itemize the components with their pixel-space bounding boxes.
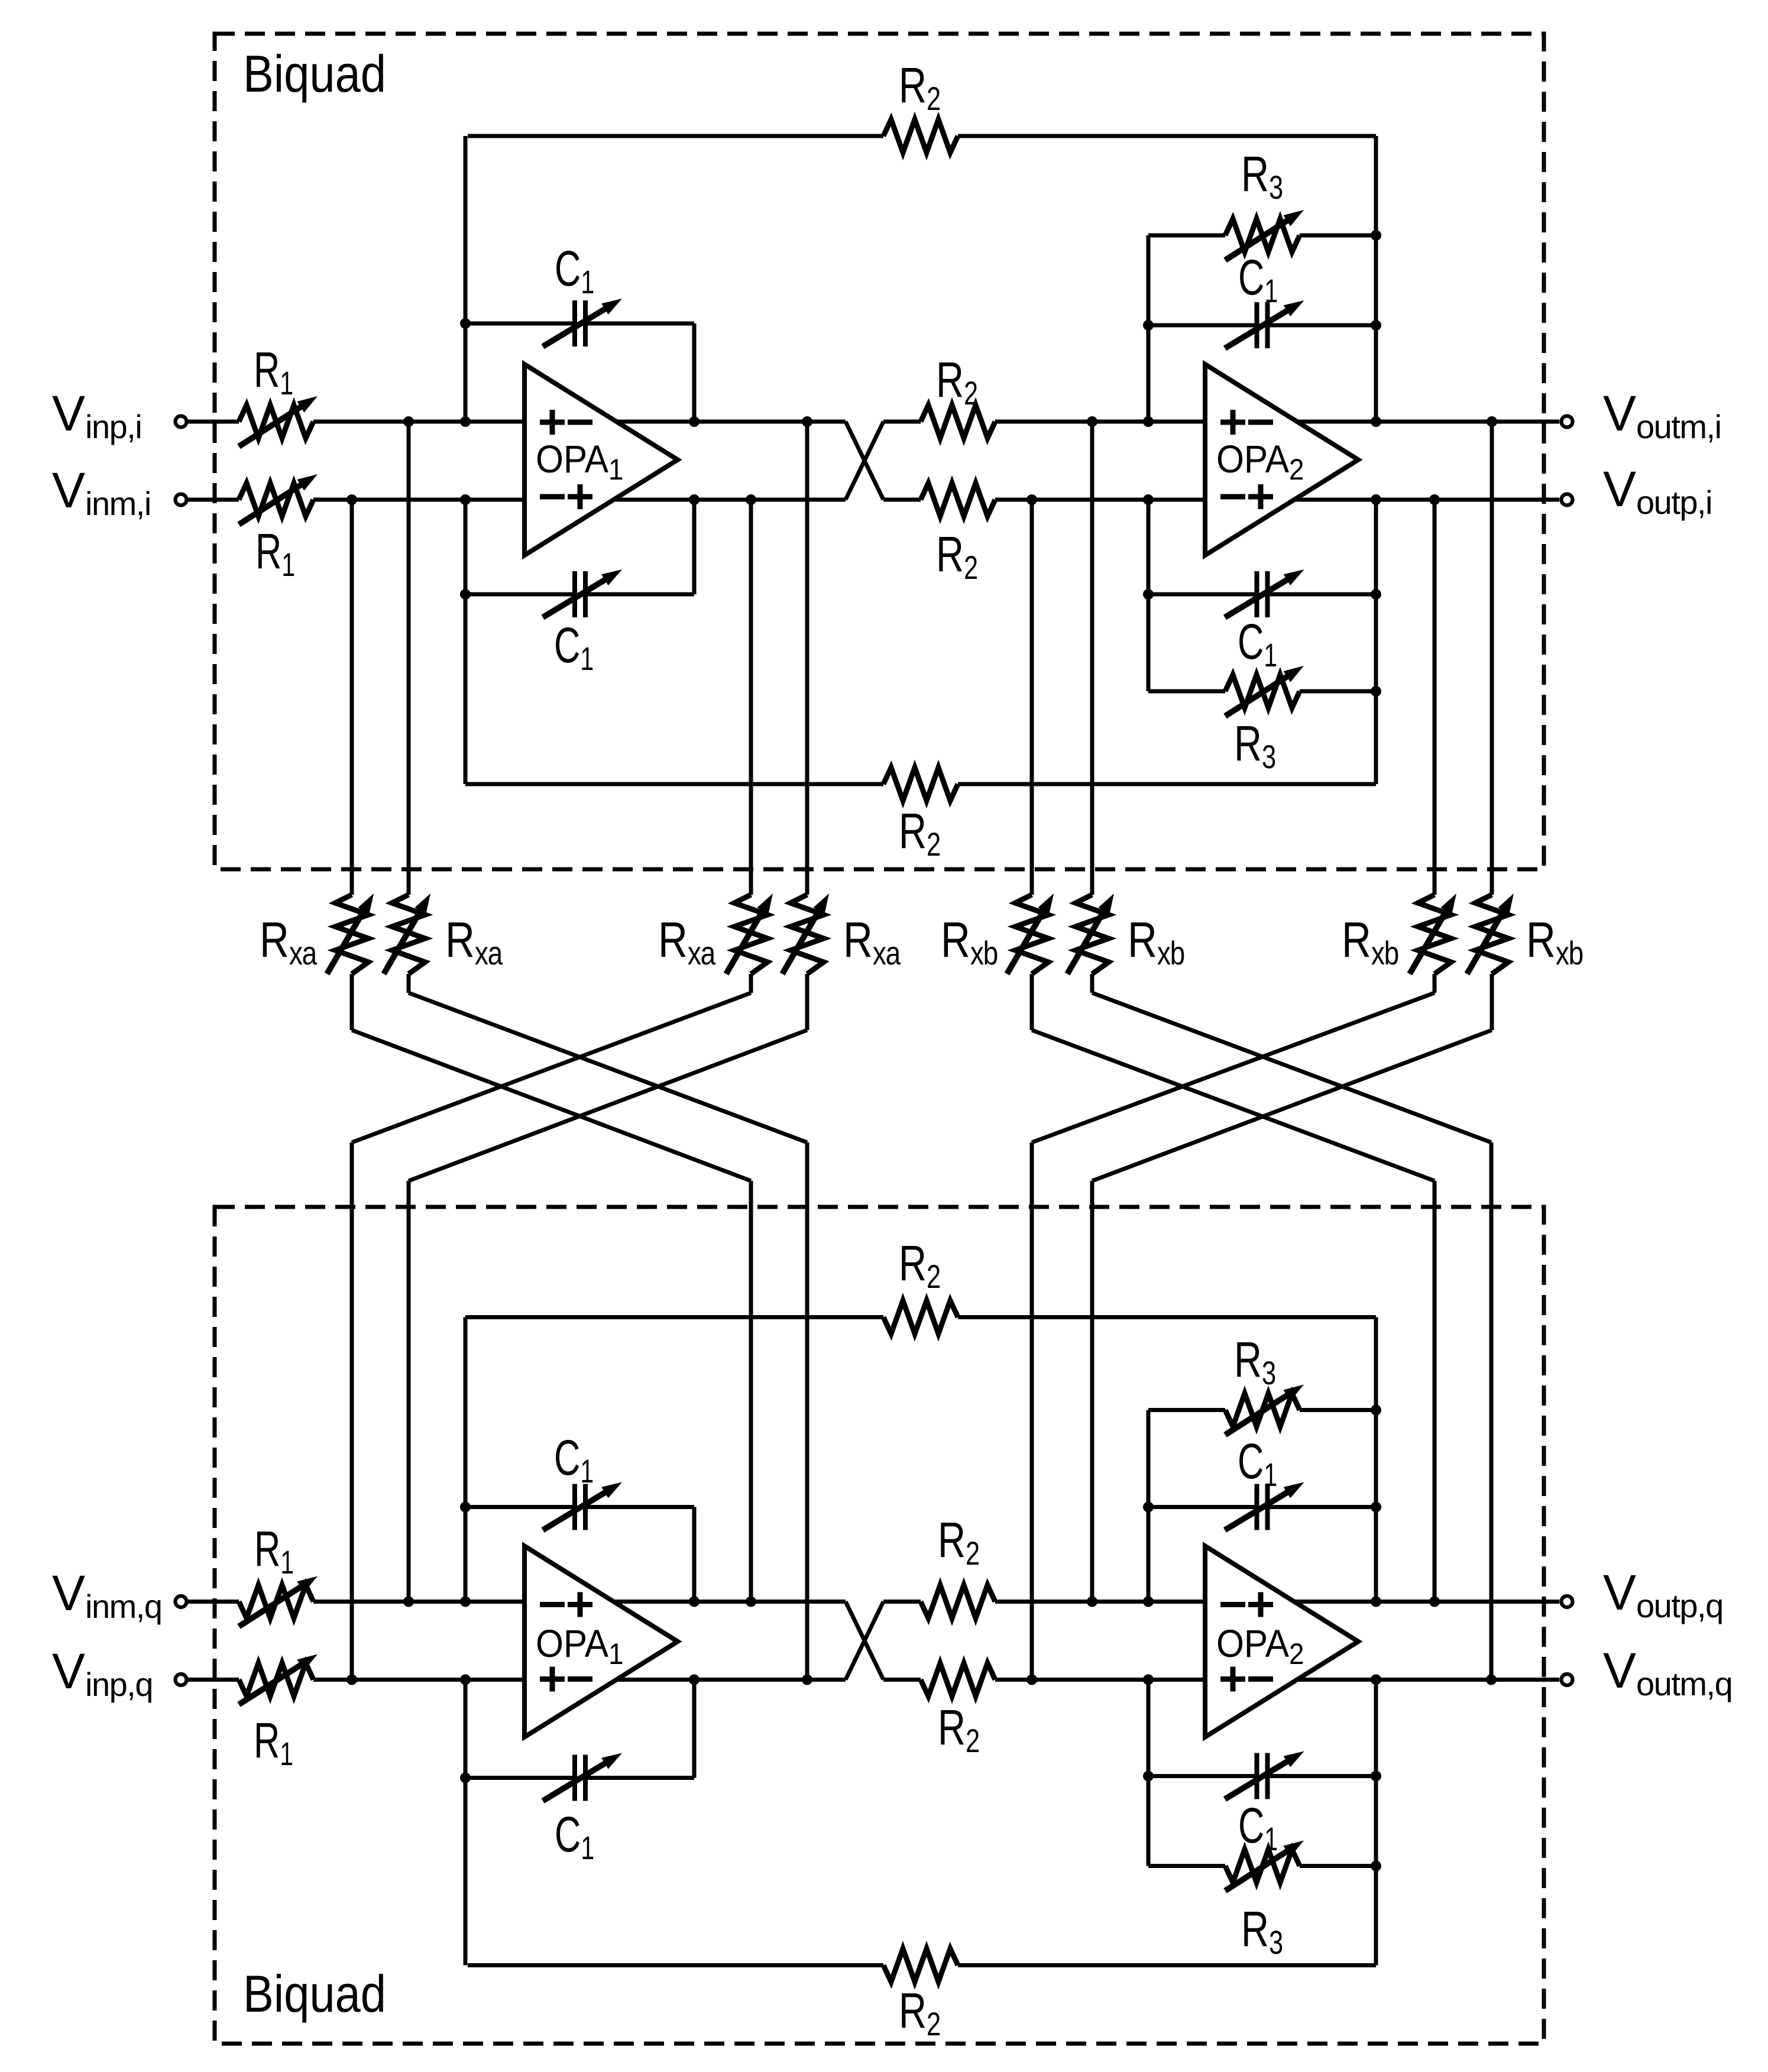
- junction Rxa #1 top rail: [347, 494, 357, 505]
- resistor Rxb #2 (variable): [1076, 895, 1109, 974]
- wire Rxb #1 crossing diagonal: [1032, 1030, 1435, 1181]
- wire R3/C1 right vertical (lower) (Q biquad, mirrored): [1374, 1317, 1378, 1602]
- OPA1 - sign bottom: [540, 494, 565, 500]
- wire R1 to OPA1 (node B): [313, 498, 524, 502]
- wire Rxa #2 column from top biquad: [407, 422, 411, 895]
- junction Rxa #4 top rail: [802, 416, 812, 427]
- output terminal Voutp,i (Q biquad, mirrored): [1562, 1596, 1573, 1607]
- junction Rxa #4 bottom rail: [403, 1597, 414, 1607]
- resistor R3 (upper): [1148, 234, 1225, 238]
- svg-text:Biquad: Biquad: [243, 44, 386, 103]
- arrow of R3 (upper): [1225, 216, 1294, 260]
- svg-text:Biquad: Biquad: [243, 1964, 386, 2023]
- resistor R2 (top feedback): [468, 134, 883, 138]
- junction right vertical / rail upper: [1371, 416, 1381, 427]
- wire Rxa #2 to corner: [407, 974, 411, 993]
- wire OPA1 bottom output: [614, 498, 846, 502]
- junction Rxb #4 bottom rail: [1087, 1597, 1097, 1607]
- arrow of Rxa #2: [384, 903, 425, 974]
- Q OPA1 - sign top: [540, 1602, 565, 1607]
- junction Rxb #1 bottom rail: [1429, 1597, 1440, 1607]
- junction left vertical / C1 lower: [1143, 589, 1154, 600]
- op-amp OPA1 (Q biquad, mirrored): [524, 1546, 678, 1737]
- junction right vertical / rail lower: [1371, 494, 1381, 505]
- resistor R2 (to OPA2 top): [883, 420, 921, 424]
- wire Vinm,i to R1: [187, 498, 239, 502]
- junction Rxb #3 top rail: [1429, 494, 1440, 505]
- junction left vertical / rail upper: [1143, 416, 1154, 427]
- OPA2 + sign bottom: [1248, 494, 1273, 500]
- junction C1 right lower: [1371, 589, 1381, 600]
- junction C1 / bottom output rail (Q biquad, mirrored): [689, 1597, 700, 1607]
- wire Rxa #1 crossing diagonal: [352, 1030, 751, 1181]
- resistor R1 (Vinp,i): [239, 405, 313, 438]
- wire R1 to OPA1 (node B) (Q biquad, mirrored): [313, 1600, 524, 1604]
- wire R3/C1 left vertical (upper): [1147, 235, 1151, 422]
- junction left vertical / rail lower: [1143, 494, 1154, 505]
- junction right vertical / rail upper (Q biquad, mirrored): [1371, 1675, 1381, 1685]
- arrow of Rxb #4: [1467, 903, 1508, 974]
- junction left vertical / rail upper (Q biquad, mirrored): [1143, 1675, 1154, 1685]
- wire Rxb #4 crossing diagonal: [1092, 1030, 1492, 1181]
- crossover wire (bottom to top): [846, 422, 883, 500]
- arrow of C1 (Q OPA1 upper): [543, 1488, 613, 1530]
- junction right vertical / rail lower (Q biquad, mirrored): [1371, 1597, 1381, 1607]
- op-amp OPA2 (Q biquad, mirrored): [1205, 1546, 1358, 1737]
- capacitor C1 (OPA2 upper): [1148, 323, 1257, 328]
- wire node A vertical to R2 feedback (Q biquad, mirrored): [464, 1680, 468, 1966]
- OPA2 + sign top: [1220, 420, 1245, 425]
- junction C1 / top output rail (Q biquad, mirrored): [689, 1675, 700, 1685]
- arrow of R1 (Q lower): [239, 1660, 308, 1705]
- resistor R2 (to OPA2 top) (Q biquad, mirrored): [883, 1678, 921, 1682]
- resistor R3 (upper) (Q biquad, mirrored): [1148, 1864, 1225, 1868]
- OPA1 + sign top: [540, 420, 565, 425]
- wire R3/C1 right vertical (upper) (Q biquad, mirrored): [1374, 1680, 1378, 1966]
- junction R3 right upper: [1371, 230, 1381, 241]
- resistor Rxa #4 (variable): [791, 895, 824, 974]
- capacitor C1 (OPA2 lower) (Q biquad, mirrored): [1148, 1505, 1257, 1509]
- junction left vertical / rail lower (Q biquad, mirrored): [1143, 1597, 1154, 1607]
- resistor Rxb #1 (variable): [1015, 895, 1048, 974]
- resistor R1 (Vinm,i) (Q biquad, mirrored): [239, 1585, 313, 1618]
- wire Rxa #4 column into bottom biquad: [407, 1181, 411, 1602]
- arrow of R3 (Q upper): [1225, 1391, 1294, 1435]
- arrow of R3 (Q lower): [1225, 1847, 1294, 1891]
- wire R3/C1 left vertical (lower) (Q biquad, mirrored): [1147, 1410, 1151, 1602]
- junction node B / C1 lower (Q biquad, mirrored): [460, 1502, 471, 1513]
- wire Rxa #3 crossing diagonal: [352, 993, 751, 1142]
- junction Rxb #1 top rail: [1027, 494, 1037, 505]
- junction node A / rail: [460, 416, 471, 427]
- wire R1 to OPA1 (node A) (Q biquad, mirrored): [313, 1678, 524, 1682]
- resistor R2 (top feedback) (Q biquad, mirrored): [468, 1963, 883, 1967]
- crossover wire (bottom to top) (Q biquad, mirrored): [846, 1602, 883, 1680]
- wire Rxa #3 column from top biquad: [749, 500, 753, 895]
- capacitor C1 (OPA2 lower): [1148, 593, 1257, 597]
- arrow of C1 (OPA1 lower): [543, 575, 613, 617]
- resistor Rxa #1 (variable): [335, 895, 368, 974]
- arrow of C1 (OPA2 upper): [1225, 306, 1295, 348]
- wire Rxb #3 column into bottom biquad: [1030, 1142, 1034, 1680]
- wire R3/C1 left vertical (upper) (Q biquad, mirrored): [1147, 1680, 1151, 1866]
- wire R3/C1 right vertical (upper): [1374, 136, 1378, 422]
- wire Rxa #4 column from top biquad: [805, 422, 809, 895]
- junction Rxb #2 bottom rail: [1486, 1675, 1497, 1685]
- arrow of Rxa #4: [782, 903, 824, 974]
- arrow of R1 (Vinp,i): [239, 402, 308, 446]
- wire Rxb #4 column into bottom biquad: [1090, 1181, 1095, 1602]
- arrow of R3 (lower): [1225, 672, 1294, 716]
- crossover wire (top to bottom): [846, 422, 883, 500]
- Q OPA2 - sign top: [1220, 1602, 1245, 1607]
- dashed box bottom Biquad: [215, 1207, 1544, 2044]
- output terminal Voutp,i: [1562, 494, 1573, 506]
- arrow of Rxb #2: [1067, 903, 1109, 974]
- wire Rxb #2 column into bottom biquad: [1489, 1142, 1494, 1680]
- Q OPA2 + sign bottom: [1220, 1676, 1245, 1682]
- wire node B vertical to R2 feedback: [464, 500, 468, 784]
- wire Vinp,i to R1 (Q biquad, mirrored): [187, 1678, 239, 1682]
- capacitor C1 (OPA1 lower) (Q biquad, mirrored): [465, 1505, 575, 1509]
- junction left vertical / C1 upper (Q biquad, mirrored): [1143, 1771, 1154, 1782]
- wire Rxa #1 to corner: [350, 974, 354, 1030]
- wire R3/C1 left vertical (lower): [1147, 500, 1151, 691]
- Q OPA2 - sign bottom: [1248, 1676, 1273, 1682]
- wire OPA1 top output: [616, 420, 846, 424]
- output terminal Voutm,i (Q biquad, mirrored): [1562, 1674, 1573, 1685]
- junction Rxa #3 bottom rail: [347, 1675, 357, 1685]
- wire Vinm,i to R1 (Q biquad, mirrored): [187, 1600, 239, 1604]
- resistor R1 (Vinp,i) (Q biquad, mirrored): [239, 1663, 313, 1697]
- resistor R3 (lower) (Q biquad, mirrored): [1148, 1408, 1225, 1412]
- input terminal Vinp,i: [176, 416, 187, 428]
- junction C1 / bottom output rail: [689, 494, 700, 505]
- arrow of C1 (Q OPA2 lower): [1225, 1757, 1295, 1799]
- OPA1 + sign bottom: [568, 494, 592, 500]
- resistor R3 (lower): [1148, 689, 1225, 694]
- junction node A / C1: [460, 318, 471, 329]
- junction C1 right upper: [1371, 320, 1381, 331]
- wire Rxb #4 column from top biquad: [1490, 422, 1494, 895]
- op-amp OPA1: [524, 364, 678, 555]
- junction Rxa #3 top rail: [746, 494, 756, 505]
- arrow of C1 (OPA1 upper): [543, 305, 613, 347]
- junction R3 right lower (Q biquad, mirrored): [1371, 1405, 1381, 1416]
- wire Rxa #1 column into bottom biquad: [749, 1181, 753, 1602]
- output terminal Voutm,i: [1562, 416, 1573, 428]
- Q OPA1 + sign bottom: [540, 1676, 565, 1682]
- resistor R2 (to OPA2 bottom) (Q biquad, mirrored): [883, 1600, 921, 1604]
- wire R1 to OPA1 (node A): [313, 420, 524, 424]
- junction Rxb #4 top rail: [1487, 416, 1497, 427]
- resistor Rxb #4 (variable): [1475, 895, 1508, 974]
- resistor R2 (bottom feedback) (Q biquad, mirrored): [465, 1315, 883, 1319]
- junction node B / C1 lower: [460, 589, 471, 600]
- wire Rxa #2 crossing diagonal: [409, 993, 807, 1142]
- junction Rxa #2 bottom rail: [802, 1675, 812, 1685]
- junction Rxb #3 bottom rail: [1027, 1675, 1037, 1685]
- resistor R1 (Vinm,i): [239, 483, 313, 516]
- capacitor C1 (OPA1 lower): [465, 593, 575, 597]
- wire OPA2 bottom output: [1294, 498, 1559, 502]
- junction node B / rail: [460, 494, 471, 505]
- crossover wire (top to bottom) (Q biquad, mirrored): [846, 1602, 883, 1680]
- wire OPA1 top output (Q biquad, mirrored): [616, 1678, 846, 1682]
- wire Rxa #4 crossing diagonal: [409, 1030, 807, 1181]
- resistor R2 (bottom feedback): [465, 782, 883, 786]
- junction C1 right lower (Q biquad, mirrored): [1371, 1502, 1381, 1513]
- wire Rxb #2 column from top biquad: [1090, 422, 1095, 895]
- resistor Rxa #2 (variable): [392, 895, 425, 974]
- resistor Rxa #3 (variable): [734, 895, 768, 974]
- capacitor C1 (OPA1 upper) (Q biquad, mirrored): [465, 1776, 575, 1780]
- arrow of R1 (Q upper): [239, 1582, 308, 1627]
- arrow of Rxb #3: [1410, 903, 1451, 974]
- op-amp OPA2: [1205, 364, 1358, 555]
- junction C1 right upper (Q biquad, mirrored): [1371, 1771, 1381, 1782]
- junction Rxb #2 top rail: [1087, 416, 1097, 427]
- arrow of Rxa #1: [327, 903, 368, 974]
- resistor Rxb #3 (variable): [1418, 895, 1451, 974]
- wire Rxa #2 column into bottom biquad: [805, 1142, 809, 1680]
- junction C1 / top output rail: [689, 416, 700, 427]
- wire node B vertical to R2 feedback (Q biquad, mirrored): [464, 1317, 468, 1602]
- junction R3 right upper (Q biquad, mirrored): [1371, 1861, 1381, 1872]
- junction left vertical / C1 lower (Q biquad, mirrored): [1143, 1502, 1154, 1513]
- wire Rxa #3 column into bottom biquad: [350, 1142, 354, 1680]
- capacitor C1 (OPA1 upper): [465, 322, 575, 326]
- junction node A / rail (Q biquad, mirrored): [460, 1675, 471, 1685]
- wire Rxb #4 to corner: [1490, 974, 1494, 1030]
- wire Rxa #4 to corner: [805, 974, 809, 1030]
- arrow of C1 (Q OPA2 upper): [1225, 1488, 1295, 1530]
- wire OPA1 bottom output (Q biquad, mirrored): [614, 1600, 846, 1604]
- wire Rxa #1 column from top biquad: [350, 500, 354, 895]
- OPA2 - sign top: [1248, 420, 1273, 425]
- wire Vinp,i to R1: [187, 420, 239, 424]
- wire Rxb #3 crossing diagonal: [1032, 993, 1435, 1142]
- input terminal Vinm,i (Q biquad, mirrored): [176, 1596, 187, 1607]
- capacitor C1 (OPA2 upper) (Q biquad, mirrored): [1148, 1774, 1257, 1778]
- OPA2 - sign bottom: [1220, 494, 1245, 500]
- wire Rxa #3 to corner: [749, 974, 753, 993]
- Q OPA1 - sign bottom: [568, 1676, 592, 1682]
- input terminal Vinm,i: [176, 494, 187, 506]
- OPA1 - sign top: [568, 420, 592, 425]
- wire OPA2 top output: [1297, 420, 1559, 424]
- wire Rxb #2 crossing diagonal: [1092, 993, 1491, 1142]
- junction left vertical / C1 upper: [1143, 320, 1154, 331]
- resistor R2 (to OPA2 bottom): [883, 498, 921, 502]
- Q OPA1 + sign top: [568, 1602, 592, 1607]
- junction node A / C1 (Q biquad, mirrored): [460, 1773, 471, 1783]
- wire Rxb #3 column from top biquad: [1433, 500, 1437, 895]
- Q OPA2 + sign top: [1248, 1602, 1273, 1607]
- arrow of C1 (OPA2 lower): [1225, 575, 1295, 617]
- arrow of R1 (Vinm,i): [239, 480, 308, 525]
- wire OPA2 bottom output (Q biquad, mirrored): [1294, 1600, 1559, 1604]
- wire node A vertical to R2 feedback: [464, 136, 468, 422]
- junction node B / rail (Q biquad, mirrored): [460, 1597, 471, 1607]
- junction Rxa #1 bottom rail: [746, 1597, 756, 1607]
- wire Rxb #3 to corner: [1433, 974, 1437, 993]
- junction R3 right lower: [1371, 686, 1381, 697]
- input terminal Vinp,i (Q biquad, mirrored): [176, 1674, 187, 1685]
- wire Rxb #2 to corner: [1090, 974, 1095, 993]
- wire OPA2 top output (Q biquad, mirrored): [1297, 1678, 1559, 1682]
- wire Rxb #1 to corner: [1030, 974, 1034, 1030]
- arrow of C1 (Q OPA1 lower): [543, 1759, 613, 1801]
- arrow of Rxb #1: [1007, 903, 1048, 974]
- junction Rxa #2 top rail: [403, 416, 414, 427]
- arrow of Rxa #3: [726, 903, 768, 974]
- wire R3/C1 right vertical (lower): [1374, 500, 1378, 784]
- wire Rxb #1 column into bottom biquad: [1433, 1181, 1437, 1602]
- wire Rxb #1 column from top biquad: [1030, 500, 1034, 895]
- dashed box top Biquad: [215, 34, 1544, 869]
